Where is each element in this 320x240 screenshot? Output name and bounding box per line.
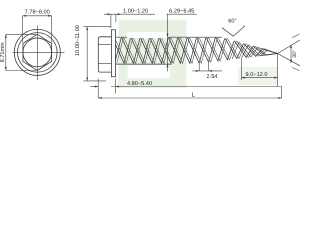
head side view outline (98, 37, 111, 72)
L dim line (98, 97, 281, 99)
highlight box thread zone (119, 20, 187, 88)
svg-text:9.0~12.0: 9.0~12.0 (246, 72, 268, 78)
svg-text:8.71min: 8.71min (0, 42, 6, 62)
60 deg callout V (222, 26, 245, 37)
svg-text:60°: 60° (228, 18, 236, 24)
hexagon (23, 34, 52, 70)
dim 8.71min line (5, 34, 7, 70)
dim 4.80~5.40 left arrow segment (90, 86, 98, 88)
washer flange (111, 30, 115, 77)
dim 4.80~5.40 long shelf line (111, 86, 282, 88)
centerline horizontal (13, 51, 65, 53)
svg-text:10.00~11.00: 10.00~11.00 (75, 25, 81, 56)
dim 8.71min extension lines (6, 34, 36, 70)
dim 2.54 line (193, 70, 223, 72)
dim 10.00~11.00 extensions (84, 27, 112, 81)
svg-text:6.29~6.45: 6.29~6.45 (169, 8, 194, 14)
dim 7.78~8.00 line (23, 15, 52, 17)
thread root line bottom (116, 63, 172, 65)
angle dim line vertical (290, 45, 292, 63)
thread helix front double (117, 38, 278, 63)
white pill over top crest (127, 32, 169, 38)
flange inner circle (18, 33, 58, 73)
washer face extension (115, 79, 117, 94)
dim 6.29~6.45 shelf (167, 14, 197, 71)
dim 7.78~8.00 extension lines (23, 16, 52, 42)
thread crest line top (116, 36, 222, 38)
thread helix back line (105, 38, 277, 63)
drill point angle lines (278, 40, 301, 66)
thread helix front line (115, 38, 278, 63)
svg-text:1.00~1.20: 1.00~1.20 (123, 8, 148, 14)
dim 2.54 extensions (199, 63, 208, 71)
dim 9.0~12.0 line (242, 77, 278, 79)
thread helix back double (107, 38, 277, 63)
svg-text:4.80~5.40: 4.80~5.40 (127, 81, 152, 87)
svg-text:30°: 30° (292, 50, 298, 58)
centerline vertical (36, 26, 38, 81)
head hex facet lines (98, 45, 111, 64)
point zone extra coil lines (242, 45, 278, 58)
dim 1.00~1.20 line+arrow (104, 13, 155, 15)
dim 10.00~11.00 line (86, 27, 88, 81)
point envelope top (261, 49, 278, 54)
hex inscribed circle (23, 38, 52, 67)
angle extension ticks (292, 34, 300, 71)
white pill over bottom crest (128, 65, 171, 79)
L dim extensions (98, 79, 281, 99)
highlight box point zone (238, 67, 278, 85)
svg-text:7.78~8.00: 7.78~8.00 (25, 10, 50, 16)
dim 1.00~1.20 extension lines (111, 14, 116, 28)
svg-text:2.54: 2.54 (207, 74, 218, 80)
flange outer circle (14, 29, 60, 75)
point envelope bottom (261, 54, 278, 56)
dim 9.0~12.0 extensions (242, 54, 278, 87)
